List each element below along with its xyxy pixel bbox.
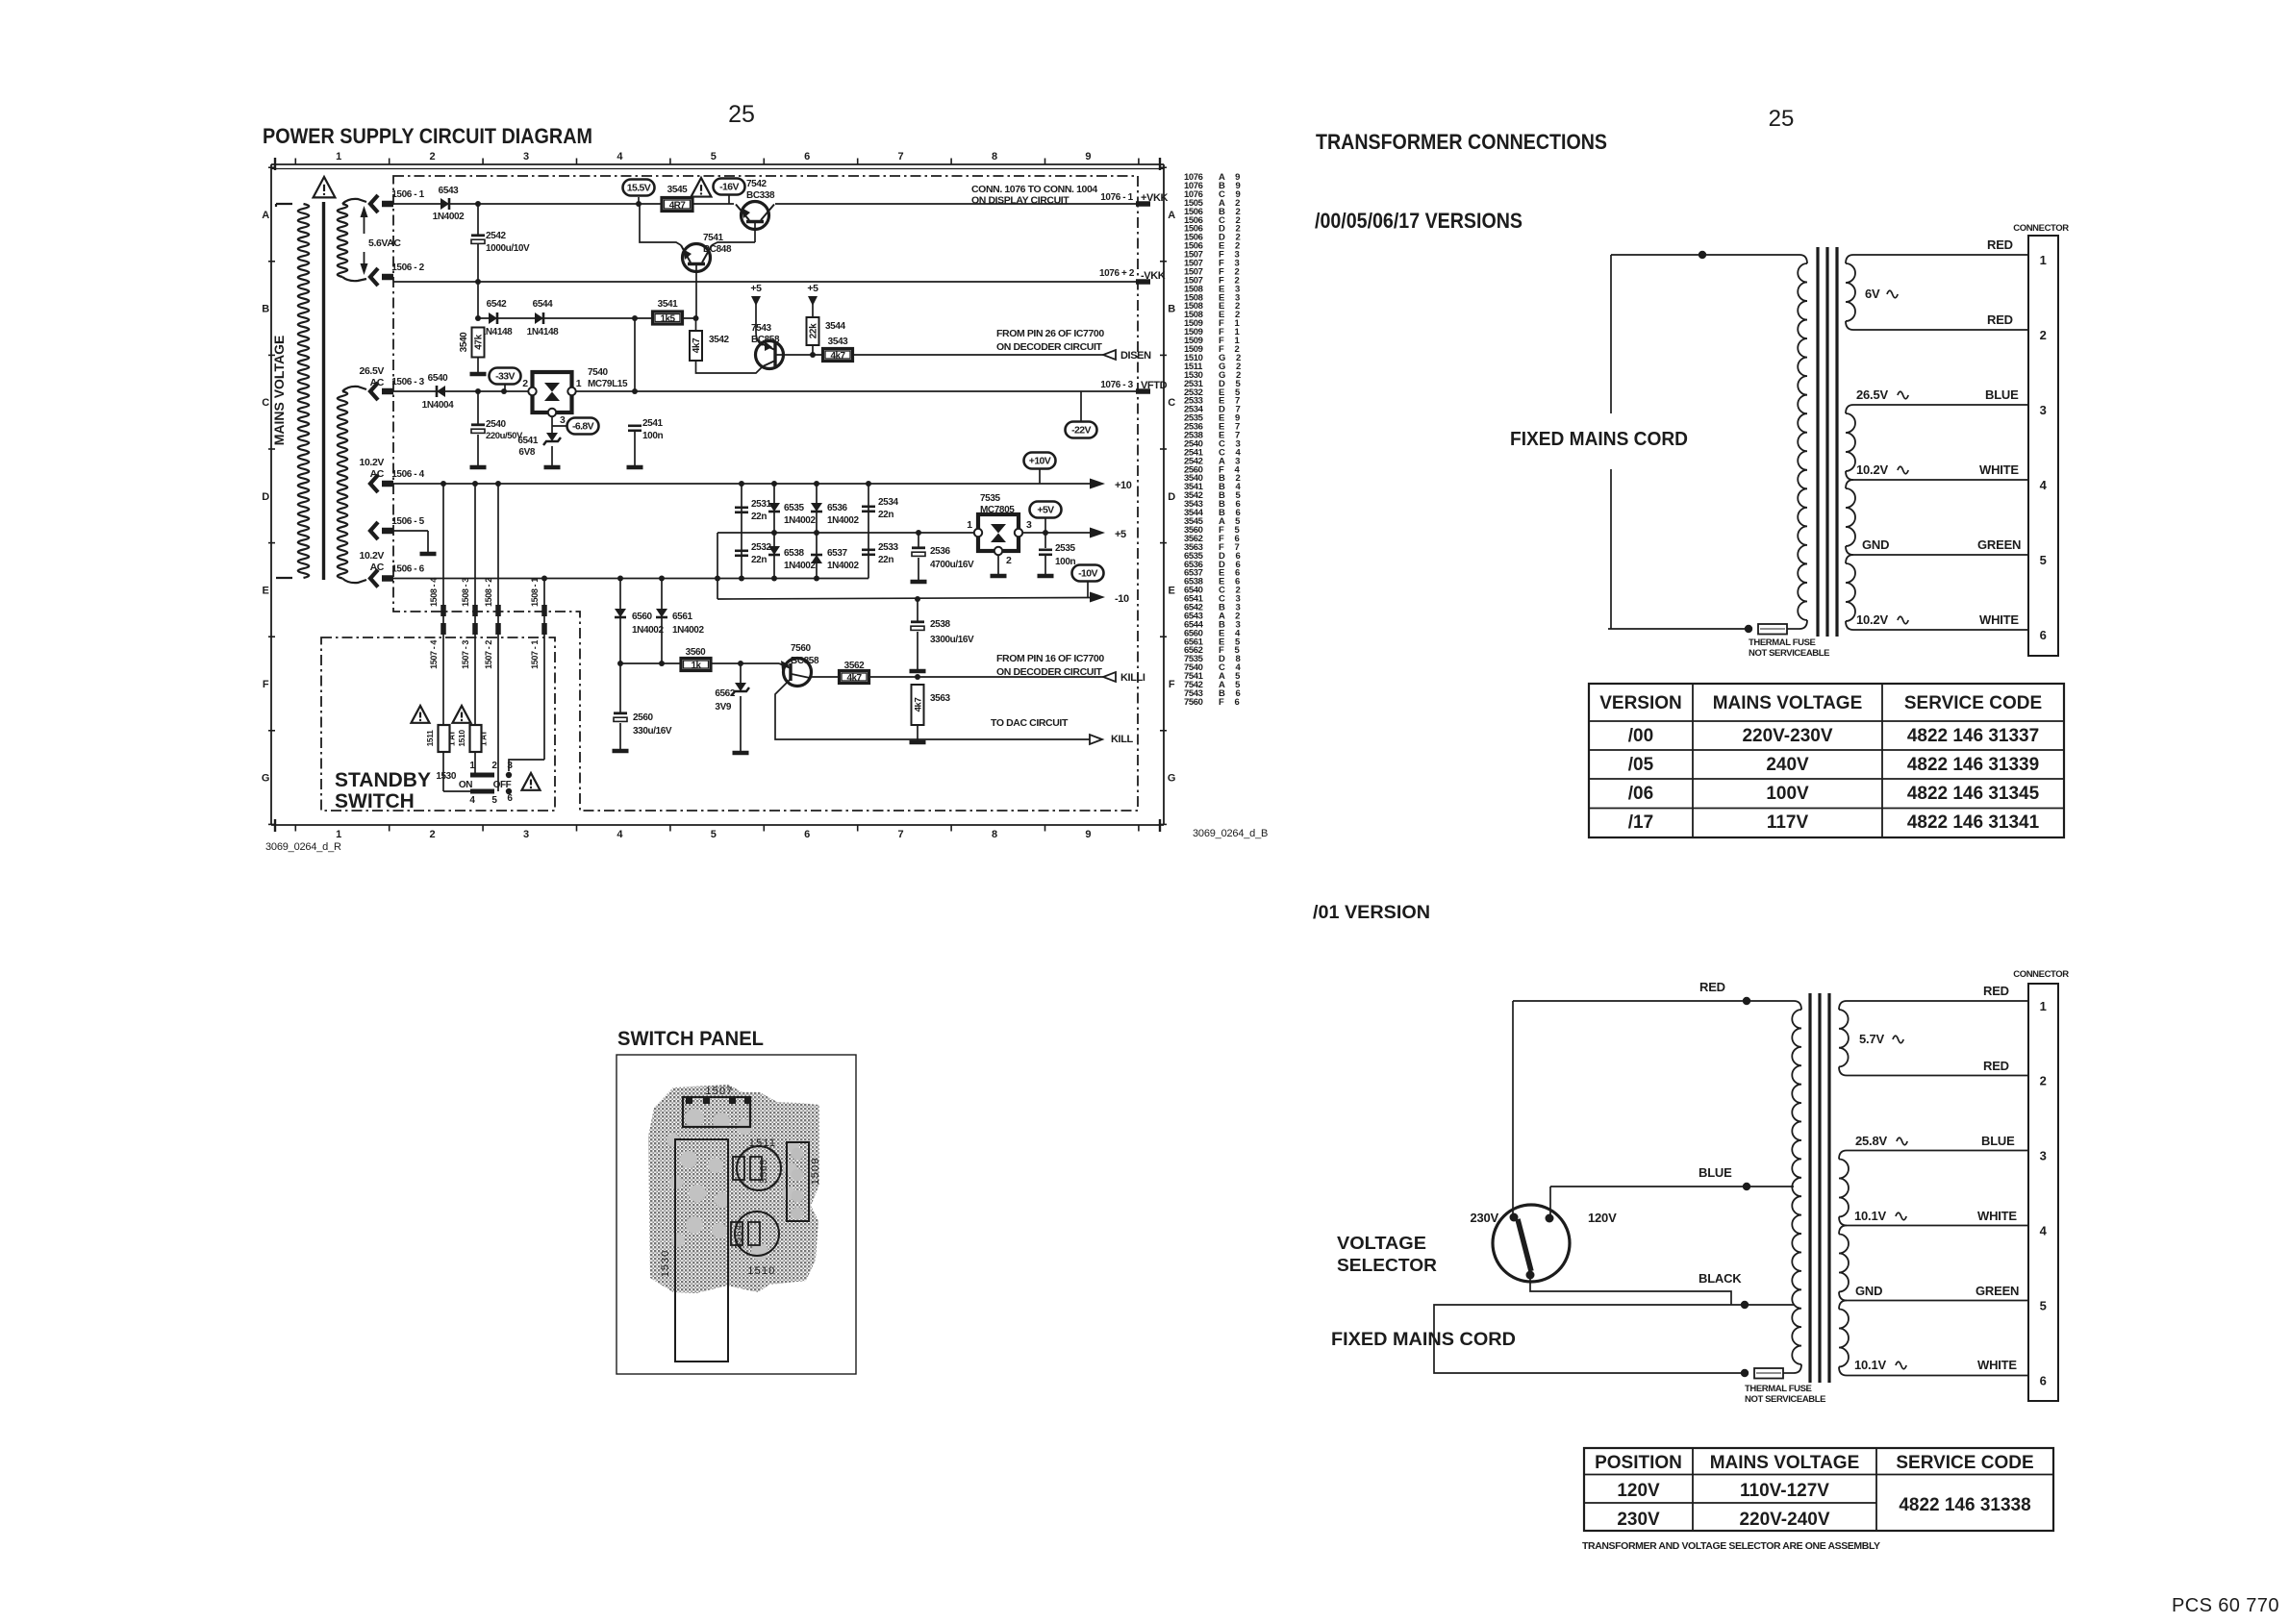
svg-text:7535: 7535 [980, 493, 1000, 504]
svg-text:3: 3 [560, 414, 566, 426]
wire -VKK rail [393, 281, 1141, 283]
svg-text:OFF: OFF [493, 780, 512, 790]
svg-text:+VKK: +VKK [1141, 192, 1169, 204]
svg-text:5.6VAC: 5.6VAC [368, 237, 401, 249]
svg-text:3069_0264_d_R: 3069_0264_d_R [265, 841, 341, 853]
svg-text:22k: 22k [809, 323, 819, 338]
transistor 7541 BC848 [683, 244, 711, 272]
resistor 3544 22k [807, 317, 819, 345]
ground (1506-5) [420, 552, 437, 557]
svg-text:/05: /05 [1628, 755, 1654, 775]
svg-text:330u/16V: 330u/16V [633, 726, 672, 737]
svg-text:CONN. 1076 TO CONN. 1004: CONN. 1076 TO CONN. 1004 [971, 184, 1097, 195]
svg-text:F: F [1169, 679, 1175, 690]
svg-text:THERMAL FUSE: THERMAL FUSE [1749, 637, 1816, 648]
diode 6540 1N4004 [437, 386, 445, 397]
svg-text:G: G [262, 773, 269, 785]
svg-text:A 9B 9C 9A 2B 2C 2D 2D 2E 2F 3: A 9B 9C 9A 2B 2C 2D 2D 2E 2F 3F 3F 2F 2E… [1219, 172, 1245, 708]
svg-text:3: 3 [2040, 1149, 2047, 1163]
svg-text:5: 5 [2040, 553, 2047, 567]
svg-text:4822 146 31345: 4822 146 31345 [1907, 784, 2040, 804]
svg-text:/00/05/06/17 VERSIONS: /00/05/06/17 VERSIONS [1315, 209, 1522, 233]
capacitor 2532 22n [735, 549, 748, 552]
svg-text:B: B [1168, 304, 1175, 315]
svg-text:1 AT: 1 AT [479, 730, 489, 746]
svg-text:6535: 6535 [784, 503, 804, 513]
svg-text:6543: 6543 [439, 186, 459, 196]
svg-text:1507: 1507 [705, 1086, 733, 1097]
svg-text:1506 - 1: 1506 - 1 [391, 189, 424, 200]
switch panel outer box [617, 1055, 856, 1374]
wire mid-to-low jog [717, 533, 718, 599]
svg-text:2: 2 [430, 829, 436, 840]
wire -10 rail [717, 598, 1090, 600]
svg-text:2560: 2560 [633, 712, 653, 723]
svg-text:8: 8 [992, 151, 997, 162]
oval +10V test point [1024, 453, 1056, 469]
svg-text:9: 9 [1085, 829, 1091, 840]
svg-text:10.2V: 10.2V [1856, 612, 1889, 627]
svg-text:2538: 2538 [930, 619, 950, 630]
svg-text:22n: 22n [878, 510, 893, 520]
svg-text:MAINS VOLTAGE: MAINS VOLTAGE [1713, 693, 1863, 713]
svg-text:4822 146 31339: 4822 146 31339 [1907, 755, 2039, 775]
svg-text:1511: 1511 [425, 730, 435, 747]
svg-text:6: 6 [2040, 1374, 2047, 1388]
svg-text:1k5: 1k5 [661, 313, 676, 324]
voltage regulator 7540 MC79L15 [533, 372, 572, 412]
svg-text:1508 - 4: 1508 - 4 [429, 578, 439, 607]
svg-text:1N4002: 1N4002 [827, 515, 859, 526]
wire +5 output [1022, 532, 1090, 534]
connector terminal 1506 - 1 [370, 195, 378, 212]
diode 6560 1N4002 [619, 579, 621, 664]
svg-text:TRANSFORMER AND VOLTAGE SELECT: TRANSFORMER AND VOLTAGE SELECTOR ARE ONE… [1582, 1540, 1880, 1552]
svg-text:22n: 22n [751, 555, 767, 565]
capacitor 2541 100n [628, 424, 642, 427]
svg-text:FROM PIN 16 OF IC7700: FROM PIN 16 OF IC7700 [996, 653, 1104, 664]
svg-text:1 AT: 1 AT [447, 730, 457, 746]
svg-text:7: 7 [898, 829, 904, 840]
/01 mains cord wires [1434, 1305, 1745, 1373]
wire VFTD rail [393, 390, 530, 392]
svg-text:230V: 230V [1470, 1211, 1498, 1225]
svg-text:1: 1 [469, 761, 475, 771]
svg-text:+5: +5 [807, 283, 818, 294]
svg-text:7540: 7540 [588, 367, 608, 378]
svg-text:1N4002: 1N4002 [632, 625, 664, 636]
connector terminal 1506 - 6 [370, 570, 378, 587]
svg-text:1510: 1510 [747, 1265, 775, 1277]
svg-text:1506 - 2: 1506 - 2 [391, 262, 424, 273]
svg-text:25: 25 [1769, 106, 1795, 132]
svg-text:1N4148: 1N4148 [527, 327, 559, 337]
svg-text:STANDBY: STANDBY [335, 769, 431, 791]
svg-text:4R7: 4R7 [669, 200, 687, 211]
svg-text:3300u/16V: 3300u/16V [930, 635, 974, 645]
/01 primary BLUE wire [1550, 1186, 1747, 1187]
svg-text:5: 5 [2040, 1299, 2047, 1313]
transistor 7542 BC338 [742, 202, 769, 230]
svg-text:GND: GND [1855, 1284, 1882, 1298]
svg-text:SELECTOR: SELECTOR [1337, 1256, 1437, 1275]
diode 6536 1N4002 [816, 484, 818, 579]
capacitor 2540 220u/50V [477, 391, 479, 424]
svg-text:3560: 3560 [686, 647, 706, 658]
wire mid rail (+5 unreg) [717, 532, 974, 534]
svg-text:1: 1 [336, 829, 341, 840]
thermal fuse (/00) [1758, 624, 1787, 635]
svg-text:4k7: 4k7 [914, 698, 924, 712]
svg-text:B: B [262, 304, 269, 315]
svg-text:1N4002: 1N4002 [433, 212, 465, 222]
svg-text:A: A [262, 210, 269, 221]
svg-text:4822 146 31337: 4822 146 31337 [1907, 726, 2039, 746]
node KILL [1090, 735, 1102, 744]
svg-text:VFTD: VFTD [1141, 380, 1168, 391]
svg-text:6V: 6V [1865, 287, 1880, 301]
svg-text:1N4002: 1N4002 [827, 561, 859, 571]
svg-text:1: 1 [967, 519, 972, 531]
svg-text:15.5V: 15.5V [627, 183, 651, 194]
svg-text:+5V: +5V [1037, 505, 1054, 516]
ground (2541) [627, 465, 643, 470]
wire 7541 emitter to 7542 base [712, 242, 755, 245]
svg-text:4: 4 [2040, 1224, 2048, 1238]
svg-text:1N4002: 1N4002 [784, 515, 816, 526]
svg-text:100n: 100n [1055, 557, 1075, 567]
svg-text:RED: RED [1983, 984, 2009, 998]
svg-text:BLUE: BLUE [1985, 387, 2019, 402]
svg-text:D: D [262, 491, 269, 503]
diode 6538 1N4002 [768, 546, 780, 555]
capacitor 2535 100n [1044, 533, 1046, 548]
connector 1530 outline on panel [675, 1139, 728, 1362]
svg-text:+10: +10 [1115, 480, 1132, 491]
thermal fuse (/01) [1754, 1368, 1783, 1379]
wires fuse outputs [442, 752, 444, 791]
svg-text:POWER SUPPLY CIRCUIT DIAGRAM: POWER SUPPLY CIRCUIT DIAGRAM [263, 124, 592, 148]
svg-text:6560: 6560 [632, 612, 652, 622]
svg-text:-6.8V: -6.8V [572, 421, 594, 433]
svg-text:+10V: +10V [1029, 456, 1051, 467]
svg-text:3540: 3540 [459, 332, 469, 352]
warning triangle (fuse 1511) [412, 706, 430, 723]
svg-text:+5: +5 [750, 283, 762, 294]
oval -6.8V test point [552, 425, 568, 427]
svg-text:/01 VERSION: /01 VERSION [1313, 903, 1430, 923]
svg-text:1076 - 1: 1076 - 1 [1100, 192, 1133, 203]
svg-text:5: 5 [711, 151, 717, 162]
svg-text:/17: /17 [1628, 812, 1653, 833]
svg-text:CONNECTOR: CONNECTOR [2013, 223, 2069, 234]
svg-text:GND: GND [1862, 537, 1889, 552]
svg-text:SWITCH: SWITCH [335, 790, 415, 812]
svg-text:ON DECODER CIRCUIT: ON DECODER CIRCUIT [996, 666, 1102, 678]
diode 6542 1N4148 [489, 312, 497, 324]
svg-text:6: 6 [507, 793, 513, 804]
oval +5V test point [1030, 502, 1062, 518]
warning triangle (fuse 1510) [453, 706, 471, 723]
connector terminal 1506 - 4 [370, 475, 378, 492]
wire 7541 collector to +VKK junction [640, 204, 681, 245]
svg-text:3565: 3565 [759, 1159, 769, 1183]
svg-text:22n: 22n [751, 512, 767, 522]
svg-text:1509: 1509 [810, 1158, 821, 1185]
svg-text:25.8V: 25.8V [1855, 1134, 1888, 1148]
secondary winding 5.6VAC section [338, 204, 348, 277]
transformer T primary winding [276, 203, 292, 205]
svg-text:1530: 1530 [660, 1250, 671, 1277]
warning triangle (mains) [314, 177, 336, 197]
PCB outline dash-dot boundary [393, 176, 1138, 811]
voltage regulator 7535 MC7805 [978, 514, 1019, 551]
svg-text:26.5V: 26.5V [1856, 387, 1889, 402]
svg-text:NOT SERVICEABLE: NOT SERVICEABLE [1745, 1394, 1825, 1405]
svg-text:3: 3 [1026, 519, 1032, 531]
svg-text:6: 6 [804, 151, 810, 162]
svg-text:2534: 2534 [878, 497, 898, 508]
svg-text:BLACK: BLACK [1699, 1271, 1742, 1286]
connector terminal 1506 - 5 [370, 522, 378, 539]
warning triangle near 3545 [692, 178, 712, 197]
wire 7543 base to DISEN [775, 354, 1116, 356]
svg-text:6542: 6542 [487, 299, 507, 310]
ground (3540) [470, 372, 487, 377]
svg-text:NOT SERVICEABLE: NOT SERVICEABLE [1749, 648, 1829, 659]
svg-text:-10: -10 [1115, 593, 1129, 605]
position/service-code table (/01) [1584, 1448, 2053, 1531]
svg-text:6561: 6561 [672, 612, 692, 622]
transistor 7543 BC858 [756, 341, 784, 369]
svg-text:6536: 6536 [827, 503, 847, 513]
5.6VAC dimension arrow [364, 211, 365, 234]
svg-text:1507 - 2: 1507 - 2 [484, 640, 493, 669]
warning triangle (switch) [522, 773, 541, 790]
capacitor 2531 22n [741, 484, 742, 579]
ground (6541) [544, 465, 561, 470]
svg-text:2542: 2542 [486, 231, 506, 241]
svg-text:1N4148: 1N4148 [481, 327, 513, 337]
svg-text:1N4002: 1N4002 [784, 561, 816, 571]
/01 secondary wires [1847, 1000, 2028, 1002]
capacitor 2542 1000u/10V [471, 234, 485, 237]
svg-text:7: 7 [898, 151, 904, 162]
svg-text:GREEN: GREEN [1975, 1284, 2019, 1298]
svg-text:SERVICE CODE: SERVICE CODE [1896, 1453, 2033, 1473]
svg-text:4822 146 31341: 4822 146 31341 [1907, 812, 2040, 833]
svg-text:1508 - 3: 1508 - 3 [461, 578, 470, 607]
svg-text:3V9: 3V9 [715, 702, 731, 712]
capacitor 2534 22n [868, 484, 869, 579]
svg-text:6V8: 6V8 [518, 447, 535, 458]
transformer core [322, 202, 325, 580]
node -10 arrow [1090, 592, 1105, 603]
svg-text:1510: 1510 [457, 730, 466, 747]
svg-text:1: 1 [2040, 999, 2047, 1013]
svg-text:25: 25 [728, 101, 755, 128]
oval -16V test point [714, 179, 745, 195]
svg-text:3545: 3545 [667, 185, 688, 195]
svg-text:6540: 6540 [428, 373, 448, 384]
diode 6561 1N4002 [661, 579, 663, 664]
svg-text:120V: 120V [1617, 1481, 1660, 1501]
svg-text:1507 - 1: 1507 - 1 [530, 640, 540, 669]
diode 6535 1N4002 [773, 484, 775, 579]
svg-text:10.2V: 10.2V [1856, 462, 1889, 477]
svg-text:1506 - 5: 1506 - 5 [391, 516, 424, 527]
svg-text:1508 - 1: 1508 - 1 [530, 578, 540, 607]
svg-text:1507 - 4: 1507 - 4 [429, 640, 439, 669]
wire 1506-5 to ground [393, 530, 428, 532]
svg-text:DISEN: DISEN [1120, 350, 1151, 362]
switch panel PCB silhouette [648, 1085, 819, 1293]
svg-text:FROM PIN 26 OF IC7700: FROM PIN 26 OF IC7700 [996, 328, 1104, 339]
/01 BLACK wire [1530, 1275, 1731, 1305]
svg-text:ON: ON [459, 780, 472, 790]
wire 2541 junction column [634, 318, 636, 391]
svg-text:26.5V: 26.5V [360, 365, 385, 377]
svg-text:7560: 7560 [791, 643, 811, 654]
node +5 arrow [1090, 528, 1105, 538]
svg-text:117V: 117V [1767, 812, 1809, 833]
svg-text:1N4004: 1N4004 [422, 400, 454, 411]
svg-text:4822 146 31338: 4822 146 31338 [1899, 1495, 2030, 1515]
svg-text:-22V: -22V [1071, 425, 1091, 437]
capacitor 2560 330u/16V [619, 663, 621, 712]
svg-text:TO DAC CIRCUIT: TO DAC CIRCUIT [991, 717, 1069, 729]
svg-text:5: 5 [711, 829, 717, 840]
svg-text:3563: 3563 [930, 693, 950, 704]
transformer primary winding (/00) [1799, 255, 1807, 263]
svg-text:1506 - 4: 1506 - 4 [391, 469, 424, 480]
svg-text:5: 5 [491, 795, 497, 806]
svg-text:THERMAL FUSE: THERMAL FUSE [1745, 1384, 1812, 1394]
/01 transformer primary winding [1794, 1001, 1801, 1010]
svg-text:4k7: 4k7 [692, 337, 702, 353]
zener diode 6541 6V8 [546, 433, 558, 441]
svg-text:6: 6 [804, 829, 810, 840]
svg-text:6562: 6562 [715, 688, 735, 699]
svg-text:47k: 47k [474, 334, 485, 349]
node +10 arrow [1090, 479, 1105, 489]
svg-text:BLUE: BLUE [1981, 1134, 2015, 1148]
svg-text:1530: 1530 [436, 771, 456, 782]
standby switch PCB dash-dot box [321, 637, 555, 811]
svg-text:+5: +5 [1115, 529, 1126, 540]
svg-text:1: 1 [576, 378, 582, 389]
ground (7535) [991, 574, 1007, 579]
svg-text:PCS 60 770: PCS 60 770 [2172, 1595, 2279, 1616]
wire 7540 pin3 / zener 6541 [551, 416, 553, 435]
svg-text:BC858: BC858 [791, 656, 819, 666]
switch 1510 circle on panel [735, 1212, 779, 1256]
svg-text:SWITCH PANEL: SWITCH PANEL [617, 1028, 764, 1050]
svg-text:C: C [1168, 397, 1175, 409]
svg-text:2: 2 [2040, 328, 2047, 342]
schematic border frame with rulers [271, 163, 1164, 165]
svg-text:220V-230V: 220V-230V [1742, 726, 1832, 746]
svg-text:2533: 2533 [878, 542, 898, 553]
svg-text:RED: RED [1983, 1059, 2009, 1073]
connector terminal 1506 - 3 [370, 383, 378, 400]
connector terminal 1506 - 2 [370, 268, 378, 286]
svg-text:RED: RED [1987, 237, 2013, 252]
oval -22V test point [1080, 391, 1082, 422]
svg-text:3: 3 [523, 829, 529, 840]
svg-text:C: C [262, 397, 269, 409]
oval +15.5V test point [638, 197, 640, 204]
svg-text:F: F [263, 679, 269, 690]
svg-text:MAINS VOLTAGE: MAINS VOLTAGE [271, 336, 287, 446]
svg-text:2: 2 [430, 151, 436, 162]
zener diode 6562 3V9 [740, 663, 742, 685]
fuse 1511 1AT [439, 725, 450, 752]
svg-text:4700u/16V: 4700u/16V [930, 560, 974, 570]
svg-text:-16V: -16V [719, 182, 739, 193]
connector 1509 on panel [787, 1142, 809, 1221]
svg-text:4: 4 [2040, 478, 2048, 492]
svg-text:3: 3 [507, 761, 513, 771]
wire +10 AC rail (1506-4) [393, 483, 1090, 485]
svg-text:120V: 120V [1588, 1211, 1617, 1225]
svg-text:2531: 2531 [751, 499, 771, 510]
svg-text:FIXED MAINS CORD: FIXED MAINS CORD [1510, 429, 1688, 450]
svg-text:230V: 230V [1617, 1510, 1660, 1530]
svg-text:7543: 7543 [751, 323, 771, 334]
svg-text:KILLI: KILLI [1120, 672, 1145, 684]
svg-text:MAINS VOLTAGE: MAINS VOLTAGE [1710, 1453, 1860, 1473]
node DISEN [1103, 350, 1116, 360]
svg-text:6541: 6541 [517, 436, 538, 446]
svg-text:1: 1 [336, 151, 341, 162]
transformer secondary windings (/00) [1846, 255, 1853, 263]
svg-text:E: E [1169, 585, 1175, 596]
svg-text:7542: 7542 [746, 179, 767, 189]
svg-text:100n: 100n [642, 431, 663, 441]
wire AC rail (1506-6) [393, 578, 868, 580]
svg-text:4: 4 [469, 795, 475, 806]
svg-text:D: D [1168, 491, 1175, 503]
svg-text:VERSION: VERSION [1599, 693, 1682, 713]
svg-text:1N4002: 1N4002 [672, 625, 704, 636]
svg-text:-10V: -10V [1078, 568, 1097, 580]
svg-text:3: 3 [2040, 403, 2047, 417]
resistor 3542 4k7 [690, 331, 702, 361]
/01 secondary windings [1839, 1001, 1847, 1010]
svg-text:1: 1 [2040, 253, 2047, 267]
svg-text:3564: 3564 [734, 1224, 744, 1248]
resistor 3563 4k7 [912, 685, 924, 725]
oval -10V test point [1087, 581, 1089, 598]
svg-text:1k: 1k [692, 661, 702, 671]
capacitor 2533 22n [862, 548, 875, 551]
svg-text:2535: 2535 [1055, 543, 1075, 554]
svg-text:/06: /06 [1628, 784, 1653, 804]
svg-text:WHITE: WHITE [1979, 612, 2019, 627]
svg-text:10.2V: 10.2V [360, 550, 385, 562]
svg-text:/00: /00 [1628, 726, 1653, 746]
svg-text:4k7: 4k7 [847, 673, 863, 684]
switch 1530 contacts [470, 773, 494, 778]
svg-text:3544: 3544 [825, 321, 845, 332]
svg-text:POSITION: POSITION [1595, 1453, 1682, 1473]
svg-text:5.7V: 5.7V [1859, 1032, 1884, 1046]
fuse 1510 1AT [470, 725, 482, 752]
svg-text:2: 2 [491, 761, 497, 771]
node KILLI [1103, 672, 1116, 682]
svg-text:107610761076150515061506150615: 1076107610761505150615061506150615061507… [1184, 172, 1204, 708]
